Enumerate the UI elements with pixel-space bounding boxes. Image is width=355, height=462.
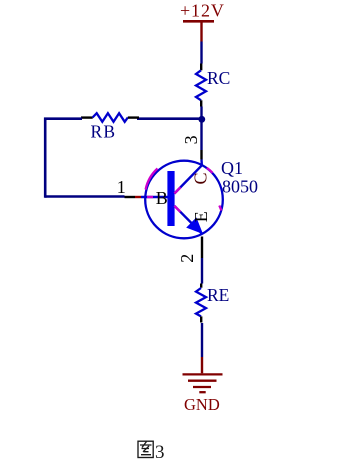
ground symbol xyxy=(183,374,223,392)
svg-text:1: 1 xyxy=(117,177,126,197)
pin 1 lead (black) xyxy=(125,196,136,198)
svg-text:RB: RB xyxy=(91,122,117,142)
magenta arc top-right xyxy=(207,168,213,173)
svg-text:GND: GND xyxy=(184,395,220,414)
wire node 3 to RB (horizontal) xyxy=(137,117,202,120)
svg-text:3: 3 xyxy=(181,135,201,144)
emitter diagonal xyxy=(174,206,202,234)
pin 3 tip (blue) xyxy=(200,160,203,166)
wire RE to ground (navy) xyxy=(201,323,203,357)
junction dot node 3 xyxy=(198,116,205,123)
pin 3 lead (black) xyxy=(200,150,202,160)
wire emitter to RE (navy) xyxy=(201,258,203,284)
wire left vertical xyxy=(44,118,47,198)
svg-text:+12V: +12V xyxy=(180,1,225,21)
wire left horizontal segment xyxy=(44,117,82,120)
emitter diagonal magenta tick xyxy=(174,206,180,212)
svg-text:8050: 8050 xyxy=(222,177,258,197)
base bar of transistor xyxy=(167,171,174,226)
svg-text:E: E xyxy=(191,211,211,222)
magenta arc right xyxy=(219,206,221,211)
wire from +12V to RC xyxy=(200,42,202,64)
wire collector: node to pin (navy) xyxy=(200,119,202,150)
pin 1 hotspot (dark red) xyxy=(135,196,141,198)
svg-text:3: 3 xyxy=(155,442,165,462)
power bar symbol xyxy=(183,20,214,23)
caption 图3 xyxy=(138,441,165,462)
pin 2 lead (black) xyxy=(201,237,203,259)
base line inside circle xyxy=(141,196,168,198)
emitter arrow xyxy=(186,217,203,234)
magenta arc top-left xyxy=(146,169,158,190)
svg-text:2: 2 xyxy=(177,254,197,263)
resistor RC xyxy=(196,64,206,107)
wire power stub (dark red) xyxy=(200,21,202,41)
resistor RB xyxy=(81,113,139,122)
wire base horizontal xyxy=(45,195,124,198)
svg-text:Q1: Q1 xyxy=(221,158,243,178)
svg-text:RE: RE xyxy=(207,285,229,305)
collector diagonal xyxy=(174,165,202,193)
ground stub (dark red) xyxy=(201,357,203,373)
transistor Q1 circle xyxy=(145,161,223,239)
base line magenta tick xyxy=(147,196,153,198)
svg-text:RC: RC xyxy=(207,68,230,88)
collector diagonal magenta tick xyxy=(174,187,180,193)
svg-text:C: C xyxy=(191,172,211,184)
resistor RE xyxy=(196,284,206,323)
wire RC to node 3 xyxy=(200,107,202,123)
svg-text:B: B xyxy=(156,188,168,208)
